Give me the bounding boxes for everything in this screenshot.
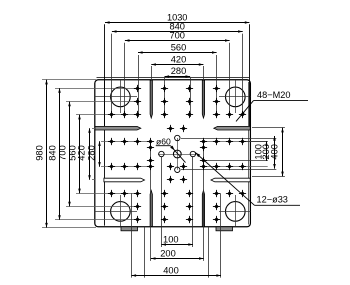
svg-text:280: 280 bbox=[86, 145, 96, 161]
row centerline y=114.8 bbox=[76, 114, 140, 116]
svg-text:48−M20: 48−M20 bbox=[257, 90, 290, 100]
dimension 420 (left) bbox=[89, 128, 91, 180]
slot tip ext right bbox=[208, 227, 210, 278]
T-slot bottom-center-left bbox=[150, 191, 152, 227]
svg-text:700: 700 bbox=[57, 145, 67, 161]
dimension 840 (left) bbox=[59, 88, 61, 220]
ext line 840T right bbox=[242, 34, 244, 113]
dimension 100 (right) bbox=[266, 141, 268, 161]
svg-text:700: 700 bbox=[169, 31, 185, 41]
T-slot lower-left bbox=[104, 178, 145, 182]
dimension 400 (bottom) bbox=[132, 275, 222, 277]
row centerline y=141.3 right bbox=[203, 141, 268, 143]
ext line 200B right bbox=[203, 140, 205, 261]
dimension 100 (bottom) bbox=[161, 244, 193, 246]
T-slot lower-right bbox=[211, 178, 250, 182]
T-slot top-center-left bbox=[150, 80, 152, 118]
svg-text:980: 980 bbox=[34, 145, 44, 161]
tie-bar hole top-left bbox=[111, 87, 131, 107]
ext line 100B right bbox=[192, 157, 194, 247]
tie-bar hole bottom-left bbox=[111, 202, 131, 222]
dimension 200 (right) bbox=[274, 136, 276, 169]
ejector hole right bbox=[190, 151, 195, 156]
ext line 980L top bbox=[42, 79, 96, 81]
row centerline y=166.7 right bbox=[203, 166, 268, 168]
T-slot upper-left bbox=[95, 126, 141, 130]
ext line 700T right bbox=[229, 43, 231, 113]
dimension 840 (top) bbox=[112, 31, 243, 33]
row centerline y=193.2 bbox=[76, 193, 140, 195]
dimension 560 (left) bbox=[79, 115, 81, 193]
center row line bbox=[158, 154, 196, 156]
dimension 200 (bottom) bbox=[151, 258, 204, 260]
ext line 700T left bbox=[124, 43, 126, 113]
ext line 400B left bbox=[131, 193, 133, 277]
dimension 400 (right) bbox=[282, 128, 284, 176]
ext line 200R bottom bbox=[181, 169, 276, 171]
inner face edge right bbox=[248, 82, 250, 225]
ext line 1030 left bbox=[104, 24, 106, 126]
center column line bbox=[177, 138, 179, 170]
T-slot upper-right bbox=[214, 126, 250, 130]
slot tip ext left bbox=[144, 227, 146, 278]
svg-text:400: 400 bbox=[163, 266, 179, 276]
ext line 280T right bbox=[190, 77, 192, 117]
inner face edge left bbox=[104, 81, 106, 226]
ext line 400B right bbox=[220, 193, 222, 277]
dimension 280 (top) bbox=[165, 76, 191, 78]
dimension 560 (top) bbox=[138, 52, 217, 54]
T-slot top-center-right bbox=[202, 80, 204, 118]
48-M20 tapped hole pattern bbox=[161, 85, 168, 92]
ext line 840T left bbox=[111, 34, 113, 113]
locating hole ø60 bbox=[173, 150, 181, 158]
ext line 400R top bbox=[252, 127, 285, 129]
svg-text:420: 420 bbox=[77, 145, 87, 161]
dimension 980 (left) bbox=[46, 80, 48, 228]
row centerline y=88 bbox=[56, 88, 140, 90]
ejector hole left bbox=[159, 151, 164, 156]
row centerline y=141.3 left bbox=[101, 141, 153, 143]
tie-bar hole bottom-right bbox=[226, 202, 246, 222]
ext to slot row bottom bbox=[92, 179, 95, 181]
row centerline y=219.8 bbox=[56, 219, 140, 221]
ext line 980L bottom bbox=[42, 227, 96, 229]
platen body outline bbox=[95, 80, 251, 227]
svg-text:280: 280 bbox=[171, 66, 187, 76]
dimension 280 (left) bbox=[99, 141, 101, 166]
dimension 700 (top) bbox=[125, 40, 230, 42]
dimension 1030 (top) bbox=[105, 22, 249, 24]
svg-text:ø60: ø60 bbox=[156, 136, 171, 146]
ext line 200B left bbox=[150, 140, 152, 261]
tie-bar hole top-right bbox=[226, 87, 246, 107]
ext line 1030 right bbox=[249, 24, 251, 126]
ejector hole top bbox=[175, 135, 180, 140]
svg-text:12−ø33: 12−ø33 bbox=[257, 195, 288, 205]
ext line 400R bottom bbox=[252, 176, 285, 178]
dimension 700 (left) bbox=[69, 102, 71, 207]
ext to slot row top bbox=[92, 128, 95, 130]
ext line 100R top bbox=[246, 141, 268, 143]
svg-text:420: 420 bbox=[171, 55, 187, 65]
ext line 100R bottom bbox=[206, 160, 268, 162]
row centerline y=101.6 bbox=[66, 101, 140, 103]
svg-text:560: 560 bbox=[171, 43, 187, 53]
ext line 100B left bbox=[161, 157, 163, 247]
dimension 420 (top) bbox=[151, 64, 203, 66]
svg-text:400: 400 bbox=[270, 144, 280, 160]
inner face edge top bbox=[97, 77, 250, 79]
ejector hole bottom bbox=[175, 167, 180, 172]
T-slot bottom-center-right bbox=[202, 191, 204, 227]
row centerline y=166.7 left bbox=[101, 166, 153, 168]
svg-text:840: 840 bbox=[47, 145, 57, 161]
ext line 200R top bbox=[181, 138, 276, 140]
svg-text:200: 200 bbox=[160, 249, 176, 259]
ext line 280T left bbox=[164, 77, 166, 117]
mounting foot right bbox=[216, 227, 233, 231]
ext line 420T right bbox=[203, 66, 205, 80]
mounting foot left bbox=[121, 227, 138, 231]
row centerline y=206.4 bbox=[66, 206, 140, 208]
ext line 560T right bbox=[216, 55, 218, 117]
ext line 560T left bbox=[138, 55, 140, 117]
svg-text:100: 100 bbox=[163, 235, 179, 245]
ext line 420T left bbox=[151, 66, 153, 80]
